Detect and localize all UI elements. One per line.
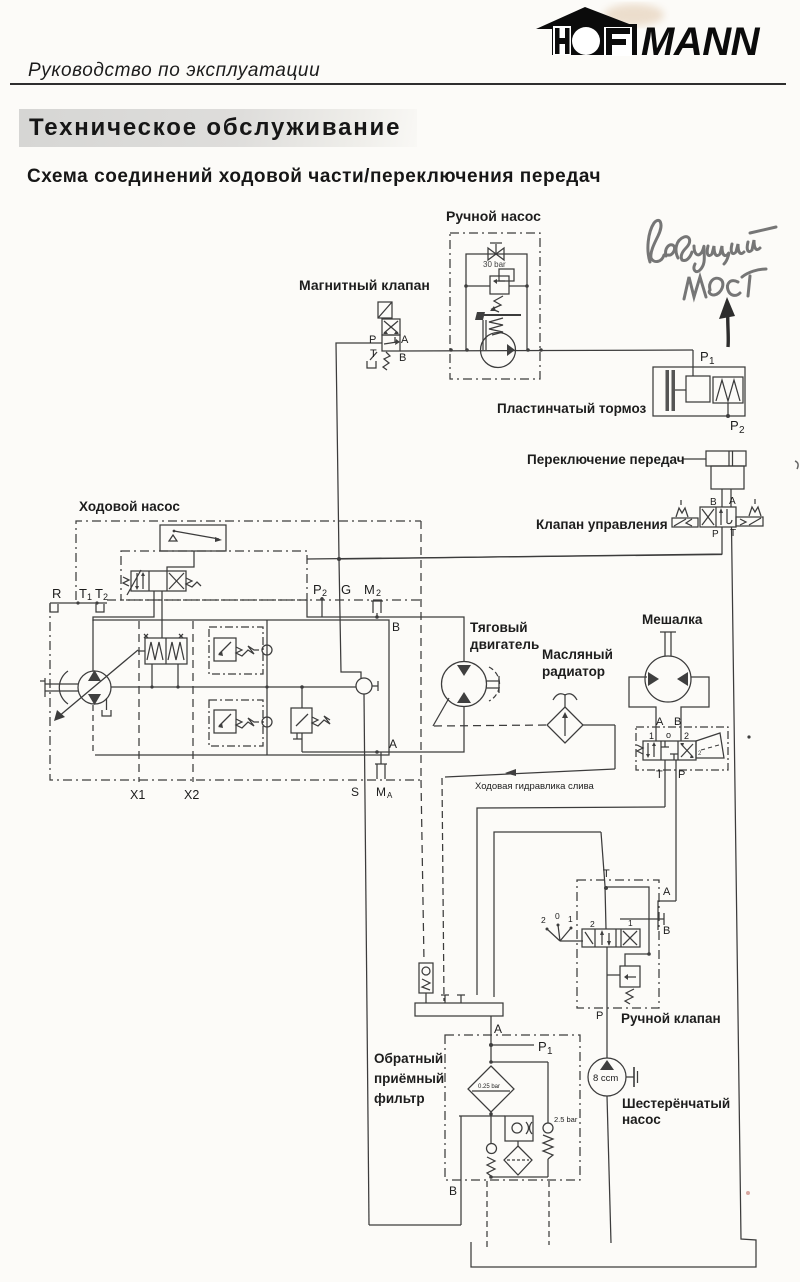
svg-text:1: 1 [628, 918, 633, 928]
svg-text:насос: насос [622, 1112, 661, 1127]
svg-text:приёмный: приёмный [374, 1071, 444, 1086]
svg-text:8 ccm: 8 ccm [593, 1073, 618, 1084]
svg-text:Ходовая гидравлика слива: Ходовая гидравлика слива [475, 781, 595, 792]
svg-text:A: A [494, 1022, 502, 1036]
svg-text:B: B [392, 620, 400, 634]
svg-text:X2: X2 [184, 788, 199, 802]
svg-text:T: T [370, 348, 377, 360]
svg-text:Переключение передач: Переключение передач [527, 452, 685, 467]
svg-text:B: B [449, 1184, 457, 1198]
svg-text:B: B [710, 497, 717, 508]
svg-text:2: 2 [541, 915, 546, 925]
svg-text:B: B [674, 716, 681, 728]
svg-text:Ходовой насос: Ходовой насос [79, 499, 180, 514]
svg-text:двигатель: двигатель [470, 637, 539, 652]
svg-text:30 bar: 30 bar [483, 260, 506, 269]
svg-text:S: S [351, 785, 359, 799]
svg-text:Клапан управления: Клапан управления [536, 517, 668, 532]
svg-text:A: A [656, 716, 664, 728]
svg-text:фильтр: фильтр [374, 1091, 425, 1106]
svg-text:M: M [376, 785, 386, 799]
svg-text:P: P [730, 418, 739, 433]
svg-text:P: P [700, 349, 709, 364]
svg-text:M: M [364, 582, 375, 597]
svg-text:Масляный: Масляный [542, 647, 613, 662]
svg-text:P: P [596, 1010, 603, 1022]
svg-text:2: 2 [739, 425, 745, 436]
svg-text:P: P [313, 582, 322, 597]
svg-text:A: A [389, 737, 397, 751]
svg-text:1: 1 [547, 1046, 553, 1057]
svg-text:T: T [730, 528, 736, 539]
svg-text:радиатор: радиатор [542, 664, 605, 679]
svg-text:1: 1 [568, 914, 573, 924]
svg-text:o: o [666, 730, 671, 740]
svg-text:A: A [729, 496, 736, 507]
svg-text:T: T [603, 868, 610, 880]
svg-text:1: 1 [87, 592, 92, 602]
svg-text:1: 1 [649, 731, 654, 741]
svg-text:Пластинчатый тормоз: Пластинчатый тормоз [497, 401, 647, 416]
svg-text:2.5 bar: 2.5 bar [554, 1115, 578, 1124]
svg-text:2: 2 [322, 588, 327, 598]
svg-text:А: А [663, 886, 671, 898]
svg-text:Обратный: Обратный [374, 1051, 443, 1066]
svg-text:MANN: MANN [641, 20, 761, 64]
svg-text:P: P [712, 529, 719, 540]
svg-text:Магнитный клапан: Магнитный клапан [299, 277, 430, 293]
svg-text:A: A [387, 791, 393, 800]
svg-text:2: 2 [103, 592, 108, 602]
svg-text:B: B [399, 352, 406, 364]
svg-text:P: P [678, 769, 685, 781]
svg-text:T: T [656, 769, 663, 781]
svg-text:0: 0 [555, 911, 560, 921]
svg-text:1: 1 [709, 356, 715, 367]
svg-text:В: В [663, 925, 670, 937]
svg-text:Ручной клапан: Ручной клапан [621, 1011, 721, 1026]
svg-text:2: 2 [698, 751, 702, 757]
svg-text:A: A [401, 334, 409, 346]
svg-text:P: P [538, 1039, 547, 1054]
svg-text:P: P [369, 334, 376, 346]
svg-text:T: T [79, 586, 87, 601]
svg-text:2: 2 [590, 919, 595, 929]
svg-text:Ручной насос: Ручной насос [446, 208, 541, 224]
svg-text:2: 2 [684, 731, 689, 741]
svg-text:Шестерёнчатый: Шестерёнчатый [622, 1096, 730, 1111]
svg-text:R: R [52, 586, 61, 601]
svg-text:Тяговый: Тяговый [470, 620, 528, 635]
svg-text:Мешалка: Мешалка [642, 612, 703, 627]
svg-text:X1: X1 [130, 788, 145, 802]
svg-text:T: T [95, 586, 103, 601]
svg-text:2: 2 [376, 588, 381, 598]
svg-text:0.25 bar: 0.25 bar [478, 1084, 500, 1090]
svg-text:G: G [341, 582, 351, 597]
